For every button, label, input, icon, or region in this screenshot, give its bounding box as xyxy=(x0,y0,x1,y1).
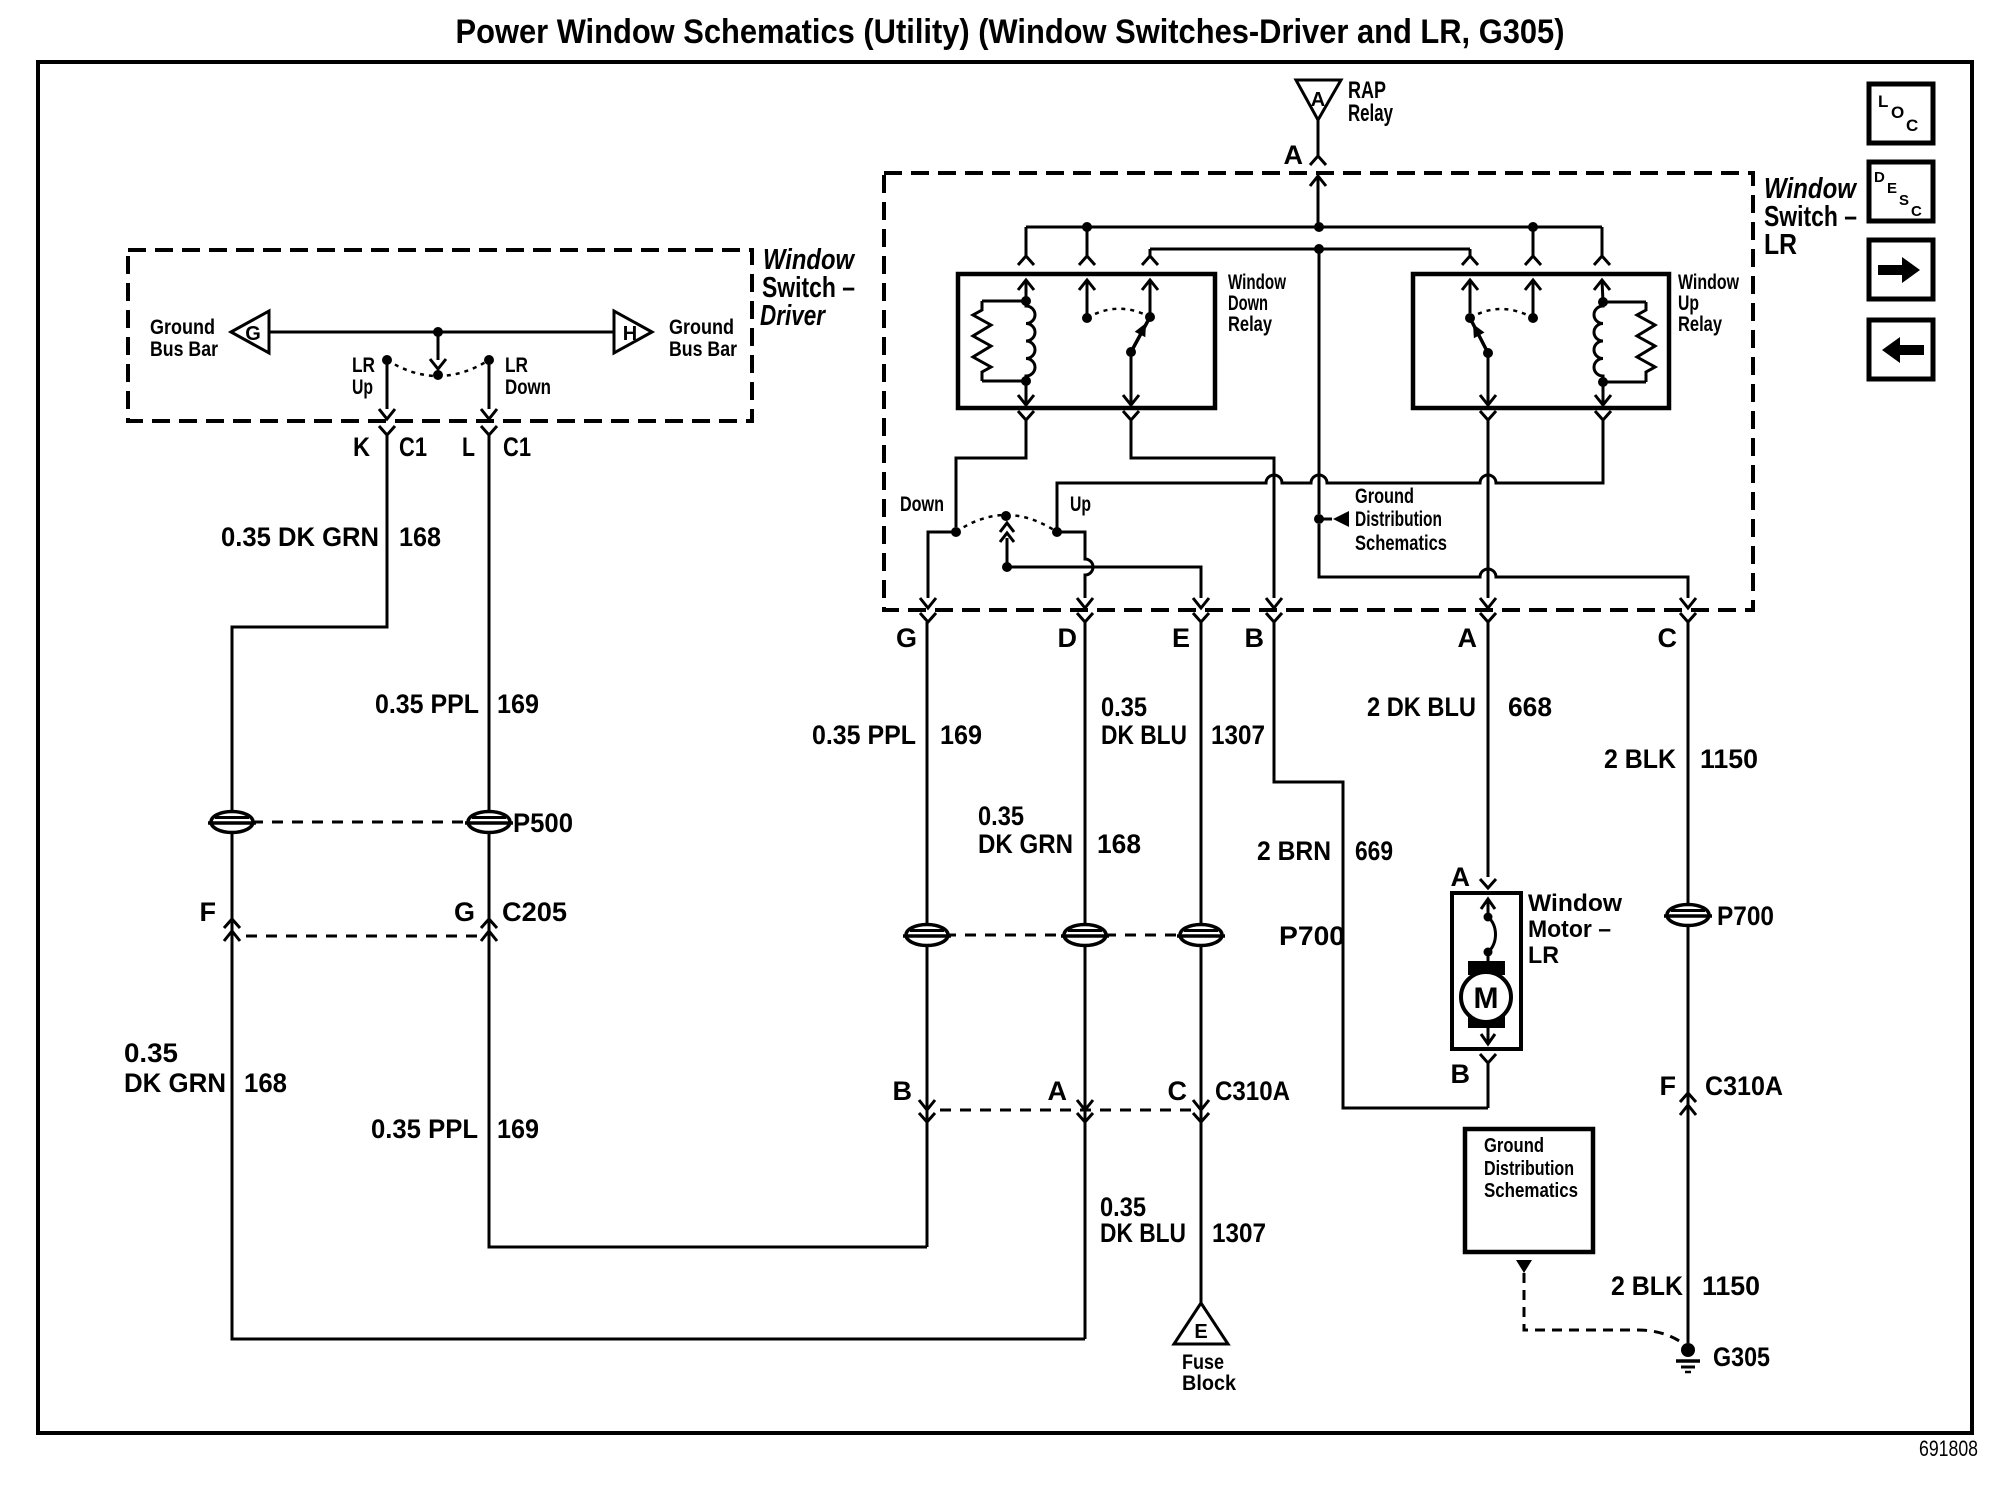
svg-text:E: E xyxy=(1887,180,1897,197)
svg-text:M: M xyxy=(1474,982,1499,1015)
svg-text:C: C xyxy=(1906,116,1918,135)
svg-text:DK BLU: DK BLU xyxy=(1100,1218,1186,1248)
svg-text:691808: 691808 xyxy=(1919,1436,1978,1461)
svg-text:0.35 PPL: 0.35 PPL xyxy=(371,1114,478,1144)
svg-text:668: 668 xyxy=(1508,692,1552,722)
svg-text:G: G xyxy=(454,897,475,927)
svg-text:C1: C1 xyxy=(399,432,427,462)
svg-text:Block: Block xyxy=(1182,1372,1236,1395)
svg-text:Window: Window xyxy=(1678,271,1739,294)
svg-text:DK BLU: DK BLU xyxy=(1101,720,1187,750)
svg-text:C310A: C310A xyxy=(1705,1071,1783,1101)
svg-text:Bus Bar: Bus Bar xyxy=(150,338,218,361)
svg-text:D: D xyxy=(1874,169,1885,186)
svg-text:Down: Down xyxy=(900,493,944,516)
svg-text:C: C xyxy=(1658,623,1678,653)
svg-text:LR: LR xyxy=(505,354,528,377)
svg-text:A: A xyxy=(1451,862,1471,892)
svg-text:C310A: C310A xyxy=(1215,1076,1290,1106)
svg-text:Motor –: Motor – xyxy=(1528,916,1611,943)
svg-text:L: L xyxy=(462,432,475,462)
svg-text:Up: Up xyxy=(1678,292,1699,315)
svg-text:Power Window Schematics (Utili: Power Window Schematics (Utility) (Windo… xyxy=(456,13,1565,51)
svg-text:C205: C205 xyxy=(502,897,567,927)
svg-text:S: S xyxy=(1899,192,1909,209)
svg-text:2 BRN: 2 BRN xyxy=(1257,836,1331,866)
svg-text:669: 669 xyxy=(1355,836,1393,866)
svg-text:169: 169 xyxy=(497,1114,539,1144)
svg-text:Distribution: Distribution xyxy=(1484,1158,1574,1180)
svg-text:O: O xyxy=(1891,103,1904,122)
svg-text:A: A xyxy=(1458,623,1478,653)
svg-text:E: E xyxy=(1172,623,1190,653)
svg-text:F: F xyxy=(1660,1071,1677,1101)
svg-text:Up: Up xyxy=(1070,493,1091,516)
svg-text:B: B xyxy=(893,1076,913,1106)
svg-text:A: A xyxy=(1048,1076,1068,1106)
svg-text:K: K xyxy=(353,432,370,462)
svg-text:168: 168 xyxy=(244,1068,287,1098)
svg-text:1307: 1307 xyxy=(1211,720,1265,750)
svg-text:Fuse: Fuse xyxy=(1182,1351,1224,1374)
svg-text:1307: 1307 xyxy=(1212,1218,1266,1248)
svg-text:Window: Window xyxy=(1528,890,1622,917)
svg-text:Driver: Driver xyxy=(760,300,826,332)
svg-text:Down: Down xyxy=(1228,292,1268,315)
svg-text:P500: P500 xyxy=(513,808,573,838)
svg-text:LR: LR xyxy=(1528,942,1559,969)
svg-text:Window: Window xyxy=(1228,271,1286,294)
svg-text:1150: 1150 xyxy=(1700,744,1758,774)
svg-text:DK GRN: DK GRN xyxy=(124,1068,226,1098)
svg-text:G305: G305 xyxy=(1713,1342,1770,1372)
svg-text:Schematics: Schematics xyxy=(1484,1180,1578,1202)
svg-text:0.35: 0.35 xyxy=(124,1038,178,1068)
svg-text:168: 168 xyxy=(399,522,441,552)
svg-text:P700: P700 xyxy=(1717,901,1774,931)
svg-text:Bus Bar: Bus Bar xyxy=(669,338,737,361)
svg-text:Ground: Ground xyxy=(669,316,734,339)
svg-text:DK GRN: DK GRN xyxy=(978,829,1073,859)
svg-text:Up: Up xyxy=(352,376,373,399)
svg-text:Relay: Relay xyxy=(1228,313,1272,336)
svg-text:L: L xyxy=(1878,92,1888,111)
svg-text:2 BLK: 2 BLK xyxy=(1604,744,1676,774)
svg-text:169: 169 xyxy=(940,720,982,750)
svg-text:169: 169 xyxy=(497,689,539,719)
svg-text:D: D xyxy=(1058,623,1078,653)
svg-text:Ground: Ground xyxy=(1484,1135,1544,1157)
svg-text:Relay: Relay xyxy=(1678,313,1722,336)
svg-text:B: B xyxy=(1451,1059,1471,1089)
svg-text:C: C xyxy=(1168,1076,1188,1106)
svg-text:LR: LR xyxy=(352,354,375,377)
svg-text:0.35: 0.35 xyxy=(978,801,1024,831)
svg-text:A: A xyxy=(1284,140,1304,170)
svg-text:168: 168 xyxy=(1097,829,1141,859)
svg-text:Ground: Ground xyxy=(1355,485,1414,508)
svg-text:2 DK BLU: 2 DK BLU xyxy=(1367,692,1476,722)
svg-text:Down: Down xyxy=(505,376,551,399)
svg-text:Schematics: Schematics xyxy=(1355,532,1447,555)
svg-text:1150: 1150 xyxy=(1702,1271,1760,1301)
svg-text:2 BLK: 2 BLK xyxy=(1611,1271,1683,1301)
svg-text:F: F xyxy=(200,897,217,927)
svg-text:0.35: 0.35 xyxy=(1101,692,1147,722)
svg-text:0.35 PPL: 0.35 PPL xyxy=(812,720,916,750)
svg-text:G: G xyxy=(245,323,261,345)
svg-text:E: E xyxy=(1194,1321,1207,1343)
svg-text:C1: C1 xyxy=(503,432,531,462)
svg-text:LR: LR xyxy=(1764,229,1797,261)
svg-text:A: A xyxy=(1311,89,1325,111)
svg-text:0.35 PPL: 0.35 PPL xyxy=(375,689,479,719)
svg-text:G: G xyxy=(896,623,917,653)
svg-text:Distribution: Distribution xyxy=(1355,508,1442,531)
svg-text:C: C xyxy=(1911,203,1922,220)
svg-text:B: B xyxy=(1245,623,1265,653)
svg-text:0.35 DK GRN: 0.35 DK GRN xyxy=(221,522,379,552)
svg-text:Relay: Relay xyxy=(1348,100,1393,127)
svg-text:P700: P700 xyxy=(1279,921,1345,951)
svg-text:Ground: Ground xyxy=(150,316,215,339)
svg-text:H: H xyxy=(623,323,637,345)
